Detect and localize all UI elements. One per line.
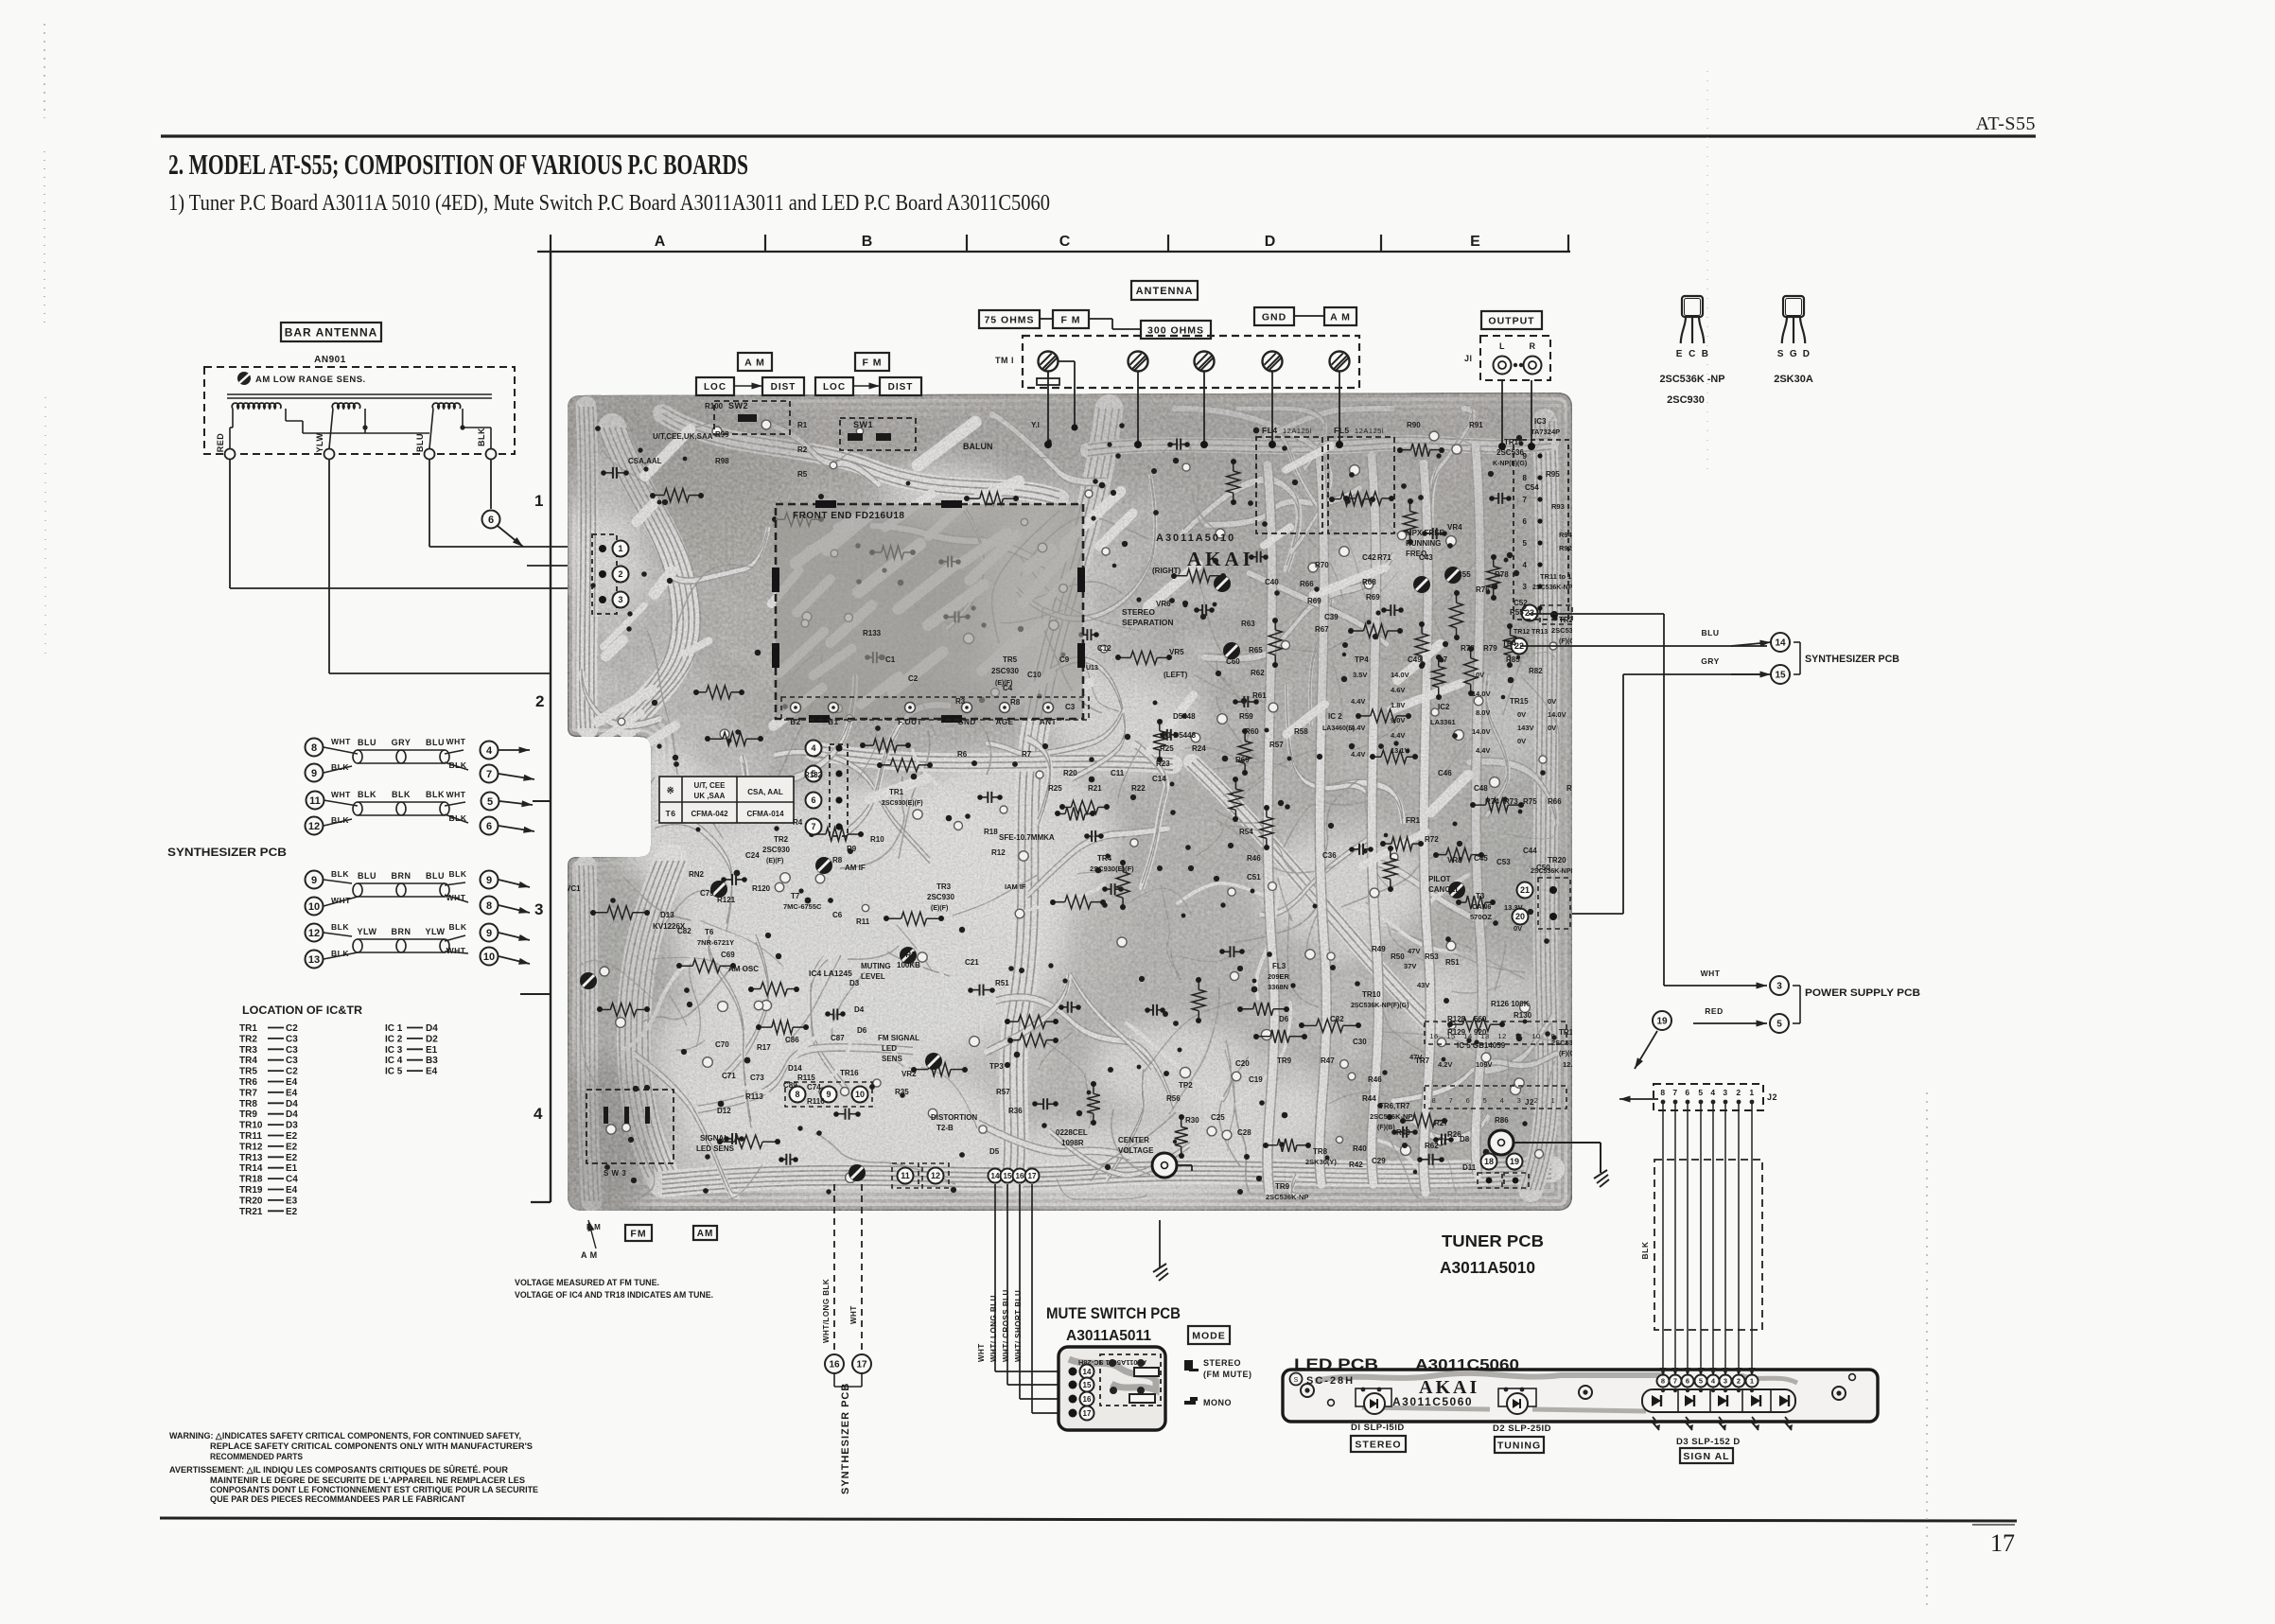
svg-text:C53: C53 [1496,858,1511,866]
svg-text:75 OHMS: 75 OHMS [984,314,1034,325]
svg-text:R56: R56 [1166,1094,1181,1103]
svg-text:10: 10 [483,952,495,963]
svg-text:D2: D2 [426,1034,438,1044]
svg-text:2: 2 [1736,1088,1741,1097]
svg-text:0V: 0V [1548,697,1556,706]
svg-text:R99: R99 [715,430,729,439]
svg-text:BLK: BLK [331,869,349,879]
svg-text:C69: C69 [721,951,735,959]
svg-text:WHT: WHT [1701,969,1721,978]
svg-text:0V: 0V [1548,724,1556,732]
svg-text:8: 8 [1432,1096,1437,1105]
svg-text:WHT/LONG BLK: WHT/LONG BLK [822,1279,831,1343]
svg-text:C9: C9 [1059,655,1070,664]
svg-text:D4: D4 [854,1005,865,1014]
svg-text:IC4 LA1245: IC4 LA1245 [809,969,852,978]
svg-text:6: 6 [1686,1377,1689,1386]
svg-text:TR7: TR7 [239,1088,257,1098]
svg-text:R62: R62 [1251,669,1265,677]
svg-text:IC 2: IC 2 [1328,712,1342,721]
svg-text:C14: C14 [1152,775,1166,783]
svg-text:AN901: AN901 [314,355,346,365]
svg-text:2SC536K-NPIF(G): 2SC536K-NPIF(G) [1531,868,1586,875]
svg-text:0V: 0V [1517,710,1526,719]
terminal circles on dashed box [225,449,236,460]
AM small [1324,307,1356,325]
WHT wire to power supply [1664,985,1767,987]
svg-text:R6: R6 [957,750,968,759]
svg-text:B3: B3 [426,1056,438,1066]
svg-text:R85: R85 [1506,655,1520,664]
svg-text:2SC536K-NP: 2SC536K-NP [1551,626,1594,635]
BLU wire to synthesizer pcb [1529,613,1664,615]
svg-text:R1: R1 [797,421,808,429]
svg-text:5: 5 [1699,1377,1703,1386]
svg-text:K-NP(F)(G): K-NP(F)(G) [1493,461,1527,467]
lightning marks [1653,1417,1659,1430]
svg-text:5: 5 [1483,1096,1488,1105]
svg-text:TP4: TP4 [1502,639,1516,648]
svg-text:13: 13 [308,954,320,966]
svg-text:CFMA-014: CFMA-014 [746,810,784,818]
svg-text:D: D [1265,234,1277,250]
svg-text:2: 2 [618,569,622,579]
svg-text:TP4: TP4 [1355,655,1369,664]
svg-text:R27: R27 [1434,1119,1448,1127]
svg-text:C71: C71 [722,1072,736,1080]
IC3 connector [1514,440,1568,620]
svg-text:U/T,CEE,UK,SAA: U/T,CEE,UK,SAA [653,432,713,441]
svg-text:D5448: D5448 [1173,712,1196,721]
svg-text:4.4V: 4.4V [1351,750,1365,759]
svg-text:SIGNAL: SIGNAL [700,1134,728,1143]
J1 wires into board [1501,380,1503,446]
svg-text:F M: F M [862,357,882,368]
svg-text:R74: R74 [1485,797,1499,806]
svg-text:SENS: SENS [882,1055,902,1063]
svg-text:MUTING: MUTING [861,962,891,970]
svg-text:A: A [655,234,667,250]
svg-text:R86: R86 [1495,1116,1509,1125]
svg-text:E3: E3 [286,1196,298,1206]
svg-text:C6: C6 [832,911,843,919]
svg-text:U/T, CEE: U/T, CEE [694,781,726,790]
svg-text:R73: R73 [1504,797,1518,806]
svg-text:S W 3: S W 3 [604,1169,626,1178]
svg-text:BRN: BRN [392,927,411,936]
svg-text:43V: 43V [1417,981,1429,989]
svg-text:TR2: TR2 [774,835,789,844]
svg-text:19: 19 [1656,1017,1668,1027]
svg-text:BALUN: BALUN [963,442,993,451]
svg-text:GRY: GRY [392,738,411,747]
white streaks [1015,542,1076,611]
svg-text:FM SIGNAL: FM SIGNAL [878,1034,919,1042]
J1 terminals [1494,357,1512,375]
svg-text:A M: A M [744,357,765,368]
svg-text:D3: D3 [286,1121,298,1131]
svg-text:E4: E4 [286,1077,298,1088]
svg-text:D12: D12 [717,1107,731,1115]
svg-text:R70: R70 [1315,561,1329,569]
svg-text:3: 3 [1776,982,1782,992]
svg-text:IC 4: IC 4 [385,1056,403,1066]
svg-text:TR3: TR3 [239,1045,257,1056]
svg-text:WHT: WHT [977,1343,986,1362]
svg-text:R10: R10 [870,835,884,844]
svg-text:DIST: DIST [771,382,796,393]
bottom rule [160,1518,2017,1521]
svg-text:C74: C74 [807,1083,821,1091]
stereo legend [1184,1360,1193,1371]
svg-text:CSA, AAL: CSA, AAL [747,788,783,796]
cable dashed box [1654,1160,1762,1330]
svg-text:VR8: VR8 [1447,856,1462,864]
svg-text:7: 7 [1673,1377,1677,1386]
GRY wire [1572,913,1623,915]
svg-text:R65: R65 [1249,646,1263,655]
svg-text:D1 D5448: D1 D5448 [1162,731,1197,740]
svg-text:VOLTAGE: VOLTAGE [1118,1146,1154,1155]
svg-text:TR20: TR20 [239,1196,263,1206]
ground from center pad [1177,1164,1192,1166]
svg-text:A3011A5011: A3011A5011 [1066,1328,1151,1344]
svg-text:CENTER: CENTER [1118,1136,1149,1144]
svg-text:R82: R82 [1529,667,1543,675]
svg-text:R4: R4 [793,818,803,827]
svg-text:R21: R21 [1088,784,1102,793]
svg-text:TR11 to 13: TR11 to 13 [1540,572,1576,581]
svg-text:17: 17 [856,1360,867,1371]
svg-text:1098R: 1098R [1061,1139,1084,1147]
75 OHMS [979,310,1040,328]
antenna wires to board [230,459,602,673]
svg-text:R121: R121 [717,896,736,904]
svg-text:R8: R8 [1010,698,1021,707]
svg-text:6: 6 [486,821,492,832]
AM LOC DIST group [738,353,772,371]
svg-text:D5: D5 [989,1147,1000,1156]
svg-text:F.OUT: F.OUT [898,718,922,726]
svg-text:LOCATION OF IC&TR: LOCATION OF IC&TR [242,1004,362,1017]
svg-text:BAR ANTENNA: BAR ANTENNA [285,325,378,339]
svg-text:4.4V: 4.4V [1351,724,1365,732]
svg-text:8: 8 [1660,1088,1665,1097]
svg-text:(F)(G): (F)(G) [1559,638,1577,645]
svg-text:TR16: TR16 [840,1069,859,1077]
svg-text:C44: C44 [1523,847,1537,855]
svg-text:U13: U13 [1086,665,1098,672]
svg-text:12A125l: 12A125l [1283,427,1312,435]
svg-text:4: 4 [811,743,815,753]
svg-text:C48: C48 [1474,784,1488,793]
svg-text:TR6: TR6 [239,1077,257,1088]
svg-text:YLW: YLW [426,927,446,936]
svg-text:R58: R58 [1294,727,1308,736]
svg-text:R24: R24 [1192,744,1206,753]
svg-text:IC 5: IC 5 [385,1067,403,1077]
svg-text:TP2: TP2 [1179,1081,1193,1090]
svg-text:C60: C60 [1226,657,1240,666]
LED PCB board [1283,1370,1878,1430]
svg-text:TR21: TR21 [1559,616,1578,624]
transistor pinout 2SC536 [1682,296,1703,317]
connectors 18 19 [1481,1154,1497,1170]
svg-text:E2: E2 [286,1142,298,1152]
svg-text:R113: R113 [745,1092,763,1101]
svg-text:SYNTHESIZER PCB: SYNTHESIZER PCB [167,846,287,859]
svg-text:D4: D4 [426,1023,438,1034]
svg-text:2SC536K -NP: 2SC536K -NP [1660,374,1725,385]
svg-text:WARNING: △INDICATES SAFETY: WARNING: △INDICATES SAFETY CRITICAL COMP… [169,1431,521,1441]
margin marks [44,24,45,118]
svg-text:5: 5 [1523,539,1528,548]
svg-text:VR1: VR1 [901,951,916,959]
svg-text:17: 17 [1083,1409,1092,1418]
svg-text:J2: J2 [1767,1092,1777,1102]
IC5 pin rows [1425,1022,1566,1044]
svg-text:R36: R36 [1008,1107,1023,1115]
svg-text:10: 10 [1531,1032,1540,1040]
RED wire [1693,1022,1767,1024]
svg-text:CAN6: CAN6 [1472,902,1491,911]
svg-text:12: 12 [308,928,320,939]
svg-text:6: 6 [1466,1096,1471,1105]
svg-text:REPLACE SAFETY CRITICAL COM: REPLACE SAFETY CRITICAL COMPONENTS ONLY … [210,1441,533,1451]
svg-text:IC 5 GB14059: IC 5 GB14059 [1457,1041,1506,1050]
svg-text:(RIGHT): (RIGHT) [1152,567,1181,575]
svg-text:AVERTISSEMENT: △IL INDIQU L: AVERTISSEMENT: △IL INDIQU LES COMPOSANTS… [169,1464,508,1475]
svg-text:A3011A5010: A3011A5010 [1440,1258,1535,1277]
power supply bracket [1793,985,1800,987]
svg-text:R126 100K: R126 100K [1491,1000,1530,1008]
svg-text:TR2: TR2 [239,1034,257,1044]
svg-text:R76: R76 [1476,585,1490,594]
GND box [1254,307,1294,325]
svg-text:SC-28H: SC-28H [1306,1375,1355,1387]
svg-text:R50: R50 [1391,952,1405,961]
svg-text:6: 6 [1523,517,1528,526]
svg-text:R91: R91 [1469,421,1483,429]
svg-text:1: 1 [618,544,622,553]
svg-text:6: 6 [488,515,494,526]
svg-text:14.0V: 14.0V [1548,710,1566,719]
svg-text:16: 16 [1083,1395,1092,1404]
svg-text:10: 10 [308,901,320,913]
svg-text:VR2: VR2 [901,1070,917,1078]
FL4 FL5 [1256,437,1322,533]
svg-text:5: 5 [1776,1020,1782,1030]
svg-text:300 OHMS: 300 OHMS [1147,324,1204,336]
svg-text:AM: AM [697,1229,714,1239]
svg-text:C1: C1 [885,655,896,664]
svg-text:TP3: TP3 [989,1062,1004,1071]
svg-text:BLK: BLK [449,760,467,770]
svg-text:BLK: BLK [358,790,376,799]
cable group 1 [306,737,535,835]
svg-text:R90: R90 [1407,421,1421,429]
svg-text:17: 17 [1990,1529,2015,1557]
svg-text:R68: R68 [1362,578,1376,586]
svg-text:4.4V: 4.4V [1391,731,1405,740]
random vertical resistors [1487,554,1500,601]
svg-text:R67: R67 [1315,625,1329,634]
antenna terminal dashed box [1023,336,1359,388]
svg-text:R78: R78 [1495,570,1509,579]
wires to mute switch [994,1184,996,1371]
svg-text:47V: 47V [1409,1053,1422,1061]
svg-text:AM LOW RANGE SENS.: AM LOW RANGE SENS. [255,375,366,385]
svg-text:D8: D8 [1460,1135,1470,1144]
svg-text:LED SENS: LED SENS [696,1144,735,1153]
J1 dashed box [1480,336,1550,380]
cable group 2 [306,869,531,969]
svg-text:7: 7 [811,822,815,831]
svg-text:560: 560 [1474,1015,1487,1023]
svg-text:IC3: IC3 [1534,417,1547,426]
svg-text:7MC-6755C: 7MC-6755C [783,902,822,911]
svg-text:12.8V: 12.8V [1563,1060,1582,1069]
svg-text:1.8V: 1.8V [1391,701,1405,709]
svg-text:R25: R25 [1048,784,1062,793]
svg-text:TR3: TR3 [936,882,952,891]
svg-text:C40: C40 [1265,578,1279,586]
svg-text:C30: C30 [1353,1038,1367,1046]
svg-text:R75: R75 [1523,797,1537,806]
svg-text:12: 12 [1497,1032,1506,1040]
svg-text:2: 2 [1534,1096,1539,1105]
svg-text:0V: 0V [1514,924,1522,933]
svg-text:D11: D11 [1462,1163,1477,1172]
coil L2 [332,403,360,409]
random resistors [1371,709,1397,723]
pin circles on led pcb [1657,1375,1670,1388]
svg-text:QUE PAR DES PIECES RECOMMA: QUE PAR DES PIECES RECOMMANDEES PAR LE F… [210,1494,465,1504]
svg-text:C11: C11 [1111,769,1125,777]
svg-text:4.4V: 4.4V [1351,697,1365,706]
svg-text:C70: C70 [715,1040,729,1049]
svg-text:C24: C24 [745,851,760,860]
svg-text:R9: R9 [847,845,857,853]
synthesizer pcb bracket [1794,641,1800,643]
svg-text:R47: R47 [1321,1056,1335,1065]
big pad bottom right [1489,1130,1514,1155]
svg-text:WHT: WHT [446,737,466,746]
svg-text:C82: C82 [677,927,691,935]
svg-text:MONO: MONO [1203,1398,1232,1407]
svg-text:TR15: TR15 [1510,697,1529,706]
svg-text:TR8: TR8 [1313,1147,1328,1156]
svg-text:RN2: RN2 [689,870,705,879]
svg-text:570OZ: 570OZ [1470,913,1492,921]
svg-text:E1: E1 [426,1045,438,1056]
svg-text:TR18: TR18 [239,1175,263,1185]
svg-text:11: 11 [309,795,321,807]
svg-text:R5: R5 [797,470,808,479]
svg-text:3368N: 3368N [1268,983,1288,991]
svg-text:TR10: TR10 [239,1121,263,1131]
svg-text:R51: R51 [1445,958,1460,967]
coil L1 [232,403,281,409]
random lead dots [1325,1156,1330,1161]
svg-text:2SC930: 2SC930 [991,667,1019,675]
connector pins 1 2 3 [592,534,617,614]
svg-text:C2: C2 [286,1067,298,1077]
svg-text:9: 9 [486,875,492,886]
SW3 [586,1090,674,1163]
svg-text:D2 SLP-25ID: D2 SLP-25ID [1493,1423,1551,1434]
svg-text:IAM IF: IAM IF [1005,882,1026,891]
svg-text:MODE: MODE [1192,1330,1226,1341]
antenna terminal wires into board [1047,372,1049,445]
svg-text:R8: R8 [832,856,843,864]
svg-text:8: 8 [311,742,317,754]
svg-text:2SC930(E)(F): 2SC930(E)(F) [1090,864,1134,873]
svg-text:C87: C87 [831,1034,845,1042]
svg-text:STEREO: STEREO [1122,607,1155,617]
svg-text:TR11: TR11 [239,1131,262,1142]
svg-text:LEVEL: LEVEL [861,972,885,981]
svg-text:R43: R43 [1396,1128,1410,1137]
option table [659,777,794,823]
coil L3 [432,403,461,409]
svg-text:SIGN AL: SIGN AL [1683,1451,1729,1462]
svg-text:TR9: TR9 [1275,1182,1290,1191]
svg-text:TR13: TR13 [239,1153,263,1163]
front end pin row [791,703,801,713]
svg-text:13.1V: 13.1V [1391,746,1409,755]
svg-text:(E)(F): (E)(F) [766,858,783,864]
svg-text:WHT/ SHORT BLU: WHT/ SHORT BLU [1014,1290,1023,1362]
svg-text:12A125l: 12A125l [1355,427,1384,435]
svg-text:WHT/ CROSS BLU: WHT/ CROSS BLU [1002,1289,1010,1362]
svg-text:TR12 TR13: TR12 TR13 [1514,629,1548,636]
svg-text:1: 1 [1749,1088,1754,1097]
svg-text:C36: C36 [1322,851,1337,860]
random capacitors [1394,1131,1403,1133]
svg-text:C3: C3 [1065,703,1076,711]
svg-text:19: 19 [1510,1157,1519,1166]
svg-text:14.0V: 14.0V [1472,727,1491,736]
svg-text:BLK: BLK [1640,1241,1650,1259]
svg-text:SEPARATION: SEPARATION [1122,618,1173,627]
svg-text:17: 17 [1028,1172,1037,1180]
svg-text:R42: R42 [1349,1161,1363,1169]
svg-text:4: 4 [486,745,493,757]
svg-text:1: 1 [1750,1377,1754,1386]
ground bottom right [1514,1142,1601,1144]
svg-text:2SC930: 2SC930 [1667,394,1705,406]
svg-text:C2: C2 [286,1023,298,1034]
svg-text:7: 7 [1672,1088,1677,1097]
svg-text:4: 4 [534,1105,543,1123]
svg-text:16: 16 [1016,1172,1024,1180]
svg-text:R51: R51 [995,979,1009,987]
svg-text:4: 4 [1523,561,1528,569]
transistor pinout 2SK30A [1783,296,1804,317]
svg-text:Dl SLP-I5ID: Dl SLP-I5ID [1351,1423,1405,1433]
300 OHMS [1141,321,1211,339]
svg-text:BLK: BLK [449,922,467,932]
svg-text:C89: C89 [783,1081,797,1090]
svg-text:R69: R69 [1307,597,1321,605]
svg-text:R7: R7 [1022,750,1032,759]
svg-text:CSA,AAL: CSA,AAL [628,457,662,465]
svg-text:109V: 109V [1476,1060,1493,1069]
svg-text:C42: C42 [1362,553,1376,562]
svg-text:MPX FREE: MPX FREE [1406,529,1445,537]
svg-text:R35: R35 [895,1088,909,1096]
